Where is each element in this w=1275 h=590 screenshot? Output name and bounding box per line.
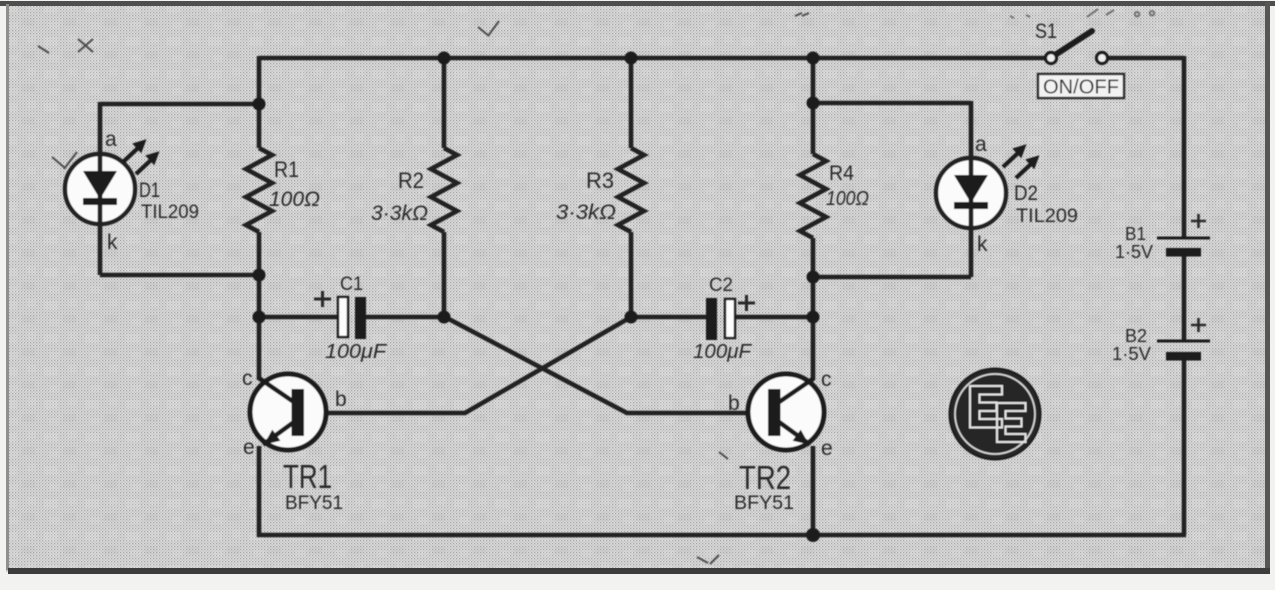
wire: D1 bottom link	[100, 273, 259, 278]
svg-text:100Ω: 100Ω	[269, 188, 320, 211]
wire: between B1 and B2	[1182, 256, 1187, 340]
wire: D2 top link	[813, 101, 971, 106]
transistor TR1	[242, 367, 347, 514]
svg-text:100μF: 100μF	[693, 341, 753, 363]
node: R2 top junction	[438, 52, 451, 65]
battery B1	[1115, 214, 1210, 262]
wire: C1 link left	[259, 315, 339, 320]
switch S1	[1035, 20, 1108, 64]
svg-text:100μF: 100μF	[325, 341, 388, 363]
wire: B2 down to bottom rail	[1182, 360, 1187, 535]
switch label ON/OFF	[1038, 74, 1124, 99]
svg-text:BFY51: BFY51	[734, 493, 794, 514]
svg-text:BFY51: BFY51	[285, 493, 343, 514]
svg-text:TIL209: TIL209	[141, 202, 199, 223]
wire: right side down to battery B1	[1182, 56, 1187, 237]
svg-text:B1: B1	[1125, 224, 1146, 244]
svg-text:1·5V: 1·5V	[1112, 344, 1151, 364]
svg-text:e: e	[243, 436, 255, 459]
svg-text:TR2: TR2	[739, 459, 791, 496]
node: C1 right / R2 bottom junction	[438, 311, 451, 324]
battery B2	[1112, 318, 1210, 364]
svg-text:R2: R2	[398, 168, 424, 193]
wire: D1 left vertical	[98, 102, 103, 275]
svg-text:1·5V: 1·5V	[1115, 242, 1153, 262]
svg-text:b: b	[335, 388, 347, 411]
node: D1 cathode junction	[253, 269, 266, 282]
wire: C2 link left from R3 bottom node	[631, 315, 707, 320]
capacitor C2	[693, 275, 755, 363]
svg-text:R4: R4	[829, 162, 854, 185]
wire: top positive rail	[259, 56, 1045, 61]
node: TR2 emitter / ground rail junction	[806, 528, 820, 542]
resistor R2	[371, 148, 457, 232]
node: R3 bottom / C2 left junction	[625, 311, 638, 324]
wire: top rail right of switch	[1108, 56, 1184, 61]
LED D1	[65, 128, 199, 254]
svg-text:D2: D2	[1014, 182, 1038, 205]
capacitor C1	[314, 274, 388, 363]
svg-text:100Ω: 100Ω	[826, 188, 869, 210]
svg-text:S1: S1	[1035, 20, 1057, 43]
publisher logo (EE roundel)	[950, 369, 1041, 460]
svg-text:k: k	[107, 231, 118, 254]
wire: D2 right vertical	[969, 101, 974, 277]
svg-text:TIL209: TIL209	[1016, 206, 1078, 227]
wire: C2 link right	[734, 315, 813, 320]
LED D2	[936, 133, 1078, 256]
resistor R3	[556, 148, 644, 232]
svg-text:a: a	[105, 128, 117, 151]
wire: C1 link right to R2 bottom node	[365, 315, 445, 320]
svg-text:c: c	[821, 368, 832, 391]
wire: cross-couple C1 node to TR2 base	[445, 317, 770, 413]
wire: D1 top link	[100, 102, 259, 107]
wire: D2 bottom link	[813, 275, 971, 280]
svg-text:3·3kΩ: 3·3kΩ	[371, 202, 428, 225]
node: R4 top junction	[807, 52, 820, 65]
node: D2 anode junction	[807, 97, 820, 110]
resistor R4	[800, 154, 869, 238]
wire: R3 branch vertical	[629, 58, 634, 317]
wire: TR2 collector/emitter vertical	[811, 317, 816, 537]
svg-text:e: e	[821, 437, 833, 460]
node: D2 cathode junction	[807, 271, 820, 284]
svg-text:D1: D1	[139, 179, 160, 202]
svg-text:b: b	[728, 392, 740, 415]
svg-text:TR1: TR1	[283, 458, 332, 495]
svg-text:B2: B2	[1125, 326, 1147, 346]
wire: cross-couple C2 node to TR1 base	[302, 317, 631, 413]
resistor R1	[246, 148, 320, 232]
transistor TR2	[728, 368, 833, 514]
svg-text:C2: C2	[709, 275, 733, 296]
svg-text:3·3kΩ: 3·3kΩ	[556, 201, 616, 224]
node: C2 right / TR2 collector junction	[807, 311, 820, 324]
svg-text:k: k	[977, 233, 988, 256]
wire: R2 branch vertical	[442, 58, 447, 317]
svg-text:a: a	[975, 133, 987, 156]
node: C1 left junction	[253, 311, 266, 324]
svg-text:R3: R3	[586, 168, 614, 193]
svg-text:ON/OFF: ON/OFF	[1043, 77, 1119, 99]
wire: R1 branch vertical	[257, 56, 262, 380]
wire: bottom ground rail	[257, 446, 1186, 537]
node: R3 top junction	[625, 52, 638, 65]
svg-text:c: c	[242, 367, 253, 390]
wire: R4 branch vertical	[811, 58, 816, 317]
node: D1 anode junction	[253, 98, 266, 111]
svg-text:C1: C1	[340, 274, 363, 295]
svg-text:R1: R1	[274, 157, 299, 182]
